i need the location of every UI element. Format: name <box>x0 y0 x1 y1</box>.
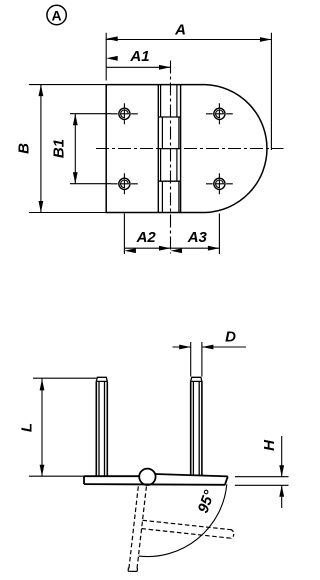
left stud thread root lines <box>99 381 105 476</box>
svg-text:B1: B1 <box>51 139 68 158</box>
vertical pin centerline <box>170 61 172 254</box>
dimension L arrows <box>40 379 45 391</box>
dashed open leaf bottom cap <box>128 568 137 572</box>
dimension A line <box>106 39 271 41</box>
hole bottom-right <box>206 173 233 194</box>
svg-text:B: B <box>16 143 33 154</box>
left stud outer edges <box>96 381 107 476</box>
dimension D extension lines <box>191 342 202 377</box>
side view: right leaf top edge <box>155 474 228 476</box>
right stud outer edges <box>191 381 202 475</box>
right stud top and chamfer <box>190 377 202 381</box>
dimension A2 A3 extension lines <box>124 214 219 255</box>
dimension A1 arrows <box>106 56 118 61</box>
hole top-left <box>111 103 138 124</box>
svg-text:A: A <box>52 7 62 23</box>
dimension B1 line <box>74 114 76 184</box>
view label circle A <box>47 5 66 24</box>
dimension B extension lines <box>29 85 106 213</box>
dimension D line segments <box>173 346 247 348</box>
dimension L extension lines <box>29 378 96 476</box>
95 degree arc <box>139 484 227 556</box>
dimension A1 line <box>106 66 170 68</box>
svg-text:A2: A2 <box>136 229 157 246</box>
dimension A2 arrows <box>124 248 135 253</box>
knuckle left leaf edge <box>157 85 159 213</box>
hole bottom-left <box>111 173 138 194</box>
hole top-right <box>206 103 233 124</box>
knuckle barrel segment 1 <box>161 85 177 117</box>
dashed open leaf line 2 <box>137 486 147 570</box>
knuckle barrel segment 4 <box>162 181 179 212</box>
knuckle barrel segment 3 <box>161 149 177 182</box>
dimension H line segments <box>281 436 283 508</box>
dashed swung arm upper line <box>143 520 233 530</box>
side view: leaf bottom edge <box>84 483 225 486</box>
dimension A3 arrows <box>171 248 183 253</box>
knuckle right leaf edge <box>180 85 182 213</box>
dashed swung arm rounded end <box>231 530 234 539</box>
svg-text:A1: A1 <box>129 48 149 65</box>
side view: left leaf top edge <box>84 475 141 477</box>
pin knuckle circle <box>139 469 155 485</box>
dimension A extension lines <box>106 33 271 150</box>
knuckle segment boundary 1 <box>158 116 180 118</box>
dimension A2 line <box>124 247 219 249</box>
svg-text:H: H <box>261 439 278 451</box>
dimension H arrows <box>279 465 284 477</box>
side view: right leaf end cap <box>225 476 228 484</box>
dimension A arrows <box>106 36 118 41</box>
dimension B line <box>40 85 42 213</box>
svg-text:A3: A3 <box>187 229 208 246</box>
svg-text:A: A <box>174 22 186 39</box>
knuckle segment boundary 3 <box>158 180 180 182</box>
knuckle barrel segment 2 <box>162 117 179 149</box>
dimension H extension lines <box>235 477 289 486</box>
dimension B1 extension lines <box>70 114 111 184</box>
dimension B arrows <box>39 85 44 97</box>
dimension B1 arrows <box>73 114 78 126</box>
dimension L line <box>41 378 43 476</box>
side view: left leaf end cap <box>83 476 85 484</box>
plate outline (top view) <box>106 85 205 213</box>
svg-text:L: L <box>19 423 36 432</box>
dashed open leaf line 1 <box>129 486 139 570</box>
horizontal centerline (top view) <box>96 148 284 150</box>
dashed swung arm lower line <box>142 529 232 539</box>
svg-text:D: D <box>225 328 236 345</box>
knuckle segment boundary 2 <box>158 148 180 150</box>
dimension D arrows <box>179 345 191 350</box>
right stud thread root lines <box>193 381 199 475</box>
plate rounded right end arc <box>206 85 267 213</box>
left stud top and chamfer <box>96 377 108 381</box>
